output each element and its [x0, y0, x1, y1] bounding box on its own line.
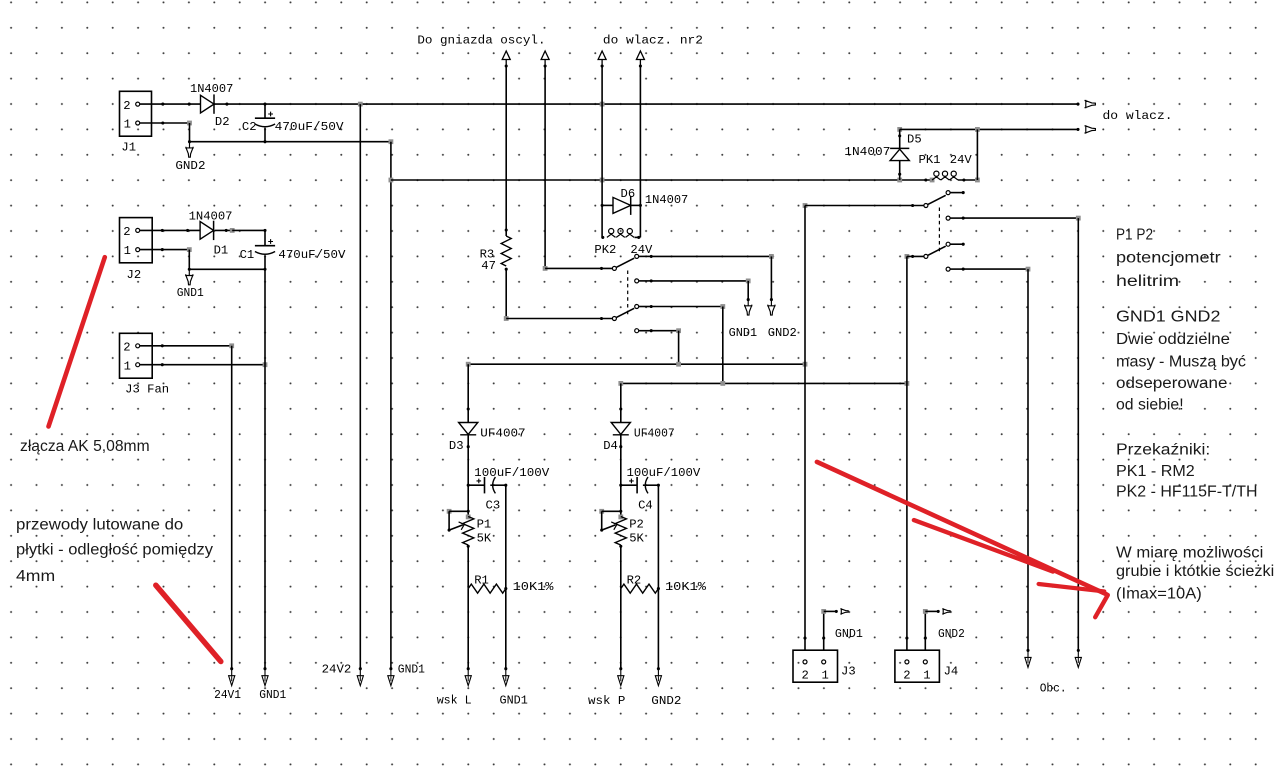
node v2 end: [543, 266, 548, 271]
arrow do wlacz lower: [1085, 126, 1096, 133]
PK2 sw1 common circle: [612, 266, 616, 270]
svg-text:D3: D3: [449, 439, 464, 453]
svg-text:R2: R2: [627, 574, 642, 588]
node PK1 coil left: [930, 178, 935, 183]
potentiometer P1: [463, 517, 474, 546]
svg-text:10K1%: 10K1%: [665, 580, 707, 594]
rail A arrow dot: [1076, 103, 1079, 106]
node P2 top: [618, 515, 623, 520]
arrow wsk P: [618, 669, 624, 686]
24V1 end dot: [230, 667, 233, 670]
GND2 wsk dot: [657, 667, 660, 670]
wire rail2 to arrow: [900, 128, 1079, 130]
svg-text:odseperowane: odseperowane: [1116, 375, 1227, 392]
red annotation line bottom-left: [156, 585, 221, 661]
svg-text:GND1: GND1: [177, 286, 204, 300]
wire Obc right vertical: [1077, 218, 1079, 650]
PK2 sw2 throw down circle: [635, 329, 639, 333]
PK1 sw2 throw down dot: [962, 268, 965, 271]
svg-text:2: 2: [123, 99, 130, 113]
wire Obc left vertical: [1027, 269, 1029, 650]
P2 wiper tee dot: [619, 510, 622, 513]
J4 GND2 stub dot: [937, 610, 940, 613]
svg-text:Obc.: Obc.: [1040, 681, 1067, 695]
wire D4 string top: [620, 383, 622, 422]
PK1 sw1 throw down stub: [950, 217, 964, 219]
PK1 sw2 throw up circle: [946, 242, 950, 246]
wire C1 bottom lead: [264, 255, 266, 269]
resistor R3: [501, 236, 511, 266]
PK1 sw2 common circle: [924, 254, 928, 258]
svg-text:do wlacz.: do wlacz.: [1103, 109, 1173, 123]
J3 pin1 dot: [822, 637, 825, 640]
svg-text:24V2: 24V2: [322, 663, 352, 677]
wire sw2 throw down right: [652, 330, 678, 332]
PK1 sw2 throw up dot: [962, 243, 965, 246]
wire GND2 wsk vertical: [657, 485, 659, 669]
junction C3 left: [467, 484, 470, 487]
svg-text:W miarę możliwości: W miarę możliwości: [1116, 545, 1263, 562]
P1 wiper arrowhead: [459, 522, 465, 530]
arrow to oscilloscope 2: [541, 51, 549, 66]
svg-text:1N4007: 1N4007: [645, 193, 688, 207]
P1 wiper tee dot: [467, 510, 470, 513]
junction C2 bottom: [263, 140, 266, 143]
svg-text:C4: C4: [638, 498, 653, 512]
svg-text:GND2: GND2: [768, 326, 797, 340]
node R3 corner: [504, 316, 509, 321]
diode D4: [611, 423, 630, 435]
node P1 wiper corner: [447, 509, 452, 514]
wire J2 pin1 down: [188, 250, 190, 270]
junction D1 cathode: [225, 229, 228, 232]
PK1 sw1 throw down dot: [962, 217, 965, 220]
svg-text:1: 1: [822, 669, 829, 683]
wire J1 pin1 down to GND2 rail: [189, 123, 191, 142]
wire P2 wiper left: [601, 511, 603, 530]
svg-text:1N4007: 1N4007: [189, 210, 233, 224]
node GND2 mid corner: [769, 254, 774, 259]
ground GND2 mid symbol: [768, 300, 775, 316]
PK1 sw1 throw up circle: [946, 191, 950, 195]
svg-text:2: 2: [903, 669, 910, 683]
svg-text:J1: J1: [121, 140, 136, 154]
arrow2 dot: [544, 64, 547, 67]
node GND1 mid corner: [746, 279, 751, 284]
J1 pin1 dot: [161, 121, 164, 124]
connector J2 box: [120, 218, 153, 263]
capacitor C2: [255, 117, 275, 119]
red arrowhead tail: [1095, 595, 1108, 617]
wire GND1 mid vertical: [747, 281, 749, 300]
svg-text:J3 Fan: J3 Fan: [125, 382, 169, 396]
junction C4 left: [619, 484, 622, 487]
wire PK1 coil feed vertical: [976, 129, 978, 180]
J4 pin2 circle: [905, 660, 909, 664]
node rail C left corner: [466, 362, 471, 367]
J3 pin1 circle: [822, 660, 826, 664]
wire C2 bottom lead: [264, 128, 266, 142]
wire PK2 coil right: [635, 236, 641, 238]
svg-text:C1: C1: [240, 248, 255, 262]
wire R3 down: [505, 269, 507, 318]
wsk L dot: [467, 667, 470, 670]
svg-text:GND1: GND1: [729, 326, 758, 340]
R2 right dot: [657, 587, 660, 590]
node rail A to PK2 feed: [600, 102, 605, 107]
svg-text:potencjometr: potencjometr: [1116, 250, 1221, 267]
PK2 sw1 throw up dot: [650, 255, 653, 258]
diode D2: [201, 95, 215, 113]
wire C1 top lead: [264, 230, 266, 245]
wire P1 to R1: [467, 545, 469, 589]
svg-text:24V: 24V: [950, 153, 973, 167]
PK1 sw1 throw down circle: [946, 216, 950, 220]
arrow GND2 wsk: [655, 669, 661, 686]
PK2 sw1 throw down circle: [635, 279, 639, 283]
arrow 24V2: [357, 669, 363, 686]
svg-text:D2: D2: [215, 115, 230, 129]
junction GND2 symbol: [188, 140, 191, 143]
wire sw1 down to Obc right: [964, 217, 1078, 219]
wire sw2 throw up right: [652, 306, 723, 308]
capacitor C1: [255, 245, 275, 247]
diode D6: [613, 197, 631, 213]
J2 pin2 dot b: [186, 229, 189, 232]
svg-text:D4: D4: [603, 439, 618, 453]
svg-text:PK2: PK2: [594, 243, 616, 257]
node D1 cathode wire end: [230, 228, 235, 233]
wire D5 bottom lead: [899, 161, 901, 180]
red annotation line J2: [49, 257, 105, 426]
PK1 sw2 common pin dot: [911, 255, 914, 258]
P2 wiper arrowhead: [611, 522, 617, 530]
svg-text:47: 47: [481, 259, 496, 273]
capacitor C3: [484, 477, 486, 493]
wire sw2 down vertical: [678, 331, 680, 365]
diode D1: [200, 222, 214, 240]
svg-text:GND1 GND2: GND1 GND2: [1116, 309, 1220, 326]
connector J4 box: [895, 650, 940, 682]
red arrow main stroke: [817, 462, 1107, 594]
GND2 mid dot: [770, 298, 773, 301]
svg-text:5K: 5K: [477, 532, 492, 546]
node rail B tee: [389, 178, 394, 183]
wire GND1 wsk vertical: [505, 485, 507, 669]
arrow do wlacz upper: [1085, 101, 1096, 108]
J3 GND1 stub dot: [835, 610, 838, 613]
D6 cathode dot: [639, 204, 642, 207]
J4 pin1 circle: [923, 660, 927, 664]
svg-text:GND1: GND1: [398, 663, 425, 677]
J2 pin2 dot a: [161, 229, 164, 232]
svg-text:GND1: GND1: [835, 627, 863, 641]
J4 pin1 dot: [924, 637, 927, 640]
D3 cathode dot: [467, 445, 470, 448]
svg-text:PK2 - HF115F-T/TH: PK2 - HF115F-T/TH: [1116, 483, 1258, 500]
svg-text:GND1: GND1: [500, 694, 528, 708]
arrow wsk L: [465, 669, 471, 686]
wire J3 pin2 vertical: [804, 206, 806, 651]
svg-text:2: 2: [123, 225, 130, 239]
wire J2 pin1: [140, 249, 189, 251]
PK2 sw2 common pin dot: [600, 317, 603, 320]
PK1 sw1 armature: [928, 195, 946, 204]
PK1 sw1 throw up stub: [950, 192, 964, 194]
svg-text:GND2: GND2: [938, 627, 965, 641]
arrow do wlacz nr2 b: [636, 51, 644, 66]
node rail C junction: [676, 362, 681, 367]
wire J4 pin2 vertical: [906, 256, 908, 650]
capacitor C4: [636, 477, 638, 493]
svg-text:2: 2: [123, 341, 130, 355]
J2 pin 1 circle: [136, 248, 140, 252]
PK1 sw1 throw up dot: [962, 191, 965, 194]
J3Fan pin 1 circle: [136, 363, 140, 367]
J2 pin 2 circle: [136, 228, 140, 232]
wire C4 right lead: [643, 484, 659, 486]
wire sw2 down to Obc left: [964, 268, 1028, 270]
PK1 sw1 common pin dot: [911, 204, 914, 207]
node sw2 down corner: [676, 328, 681, 333]
GND1 left end dot: [263, 667, 266, 670]
svg-text:5K: 5K: [629, 532, 644, 546]
wire J3 GND1 stub: [824, 610, 837, 612]
svg-text:4mm: 4mm: [16, 568, 55, 585]
wire C2 top lead: [264, 104, 266, 118]
D4 anode dot: [619, 407, 622, 410]
R3 bottom dot: [505, 268, 508, 271]
wire C4 left lead: [621, 484, 637, 486]
wire GND2 rail: [190, 141, 391, 143]
J4 pin2 dot: [905, 637, 908, 640]
ground GND1 symbol J2: [186, 269, 193, 285]
J3Fan pin 2 circle: [136, 344, 140, 348]
PK1 sw2 throw down circle: [946, 267, 950, 271]
ground GND1 mid symbol: [745, 300, 752, 316]
svg-text:10K1%: 10K1%: [513, 580, 555, 594]
GND1 wsk dot: [504, 667, 507, 670]
coil return end dot: [389, 667, 392, 670]
PK2 sw2 throw down stub: [639, 330, 652, 332]
node Obc left corner: [1026, 267, 1031, 272]
svg-text:przewody lutowane do: przewody lutowane do: [16, 517, 183, 534]
wire v2: [544, 66, 546, 268]
wire D4 to C4: [620, 435, 622, 516]
D4 cathode dot: [619, 445, 622, 448]
R3 top dot: [505, 228, 508, 231]
svg-text:1N4007: 1N4007: [190, 82, 233, 96]
wire wsk P vertical: [620, 589, 622, 669]
PK2 gang dashed link: [627, 271, 629, 317]
svg-text:P1: P1: [477, 518, 492, 532]
node J3Fan pin2 corner: [229, 343, 234, 348]
svg-text:PK1: PK1: [919, 153, 941, 167]
svg-text:D1: D1: [214, 244, 229, 258]
svg-text:płytki - odległość pomiędzy: płytki - odległość pomiędzy: [16, 542, 213, 559]
svg-text:1N4007: 1N4007: [844, 145, 890, 159]
svg-text:UF4007: UF4007: [480, 427, 525, 441]
node rail B at D5: [897, 178, 902, 183]
PK1 sw2 throw down stub: [950, 268, 964, 270]
J1 pin 2 circle: [136, 102, 140, 106]
node P2 wiper corner: [599, 509, 604, 514]
wire P2 wiper top: [602, 510, 621, 512]
wire P2 wiper diag: [602, 525, 616, 530]
wire PK1 sw2 common: [907, 255, 924, 257]
PK1 coil left dot: [924, 178, 927, 181]
arrow do wlacz nr2 a: [598, 51, 606, 66]
svg-text:100uF/100V: 100uF/100V: [474, 466, 550, 480]
wire v1 top: [505, 66, 507, 236]
wire throw up to GND2: [652, 255, 771, 257]
svg-text:P2: P2: [629, 518, 644, 532]
svg-text:1: 1: [923, 669, 930, 683]
wire P1 wiper diag: [449, 525, 463, 530]
wire wsk L vertical: [467, 589, 469, 669]
wire 24V1 vertical: [231, 346, 233, 669]
svg-text:C2: C2: [242, 120, 257, 134]
wire C3 left lead: [468, 484, 484, 486]
J3Fan pin1 dot: [161, 363, 164, 366]
arrow 24V1: [229, 669, 235, 686]
svg-text:D6: D6: [621, 187, 636, 201]
svg-text:100uF/100V: 100uF/100V: [627, 466, 701, 480]
wire D5 top lead: [899, 129, 901, 148]
node rail A to 24V2 drop: [358, 102, 363, 107]
PK2 sw1 throw up stub: [639, 255, 652, 257]
PK2 sw2 throw up dot: [650, 305, 653, 308]
wire D6 anode: [602, 204, 613, 206]
arrow GND1 wsk: [503, 669, 509, 686]
P1 wiper dot: [448, 529, 451, 532]
P2 wiper dot: [600, 529, 603, 532]
node J1 pin1 corner: [187, 121, 192, 126]
wire D1 to C1: [232, 229, 265, 231]
svg-text:wsk L: wsk L: [437, 694, 472, 708]
junction rail A at C2: [263, 103, 266, 106]
node J4 GND2 stub corner: [923, 609, 928, 614]
wire D3 to C3: [467, 435, 469, 516]
GND1 mid dot: [747, 298, 750, 301]
D3 anode dot: [467, 407, 470, 410]
D5 cathode dot: [898, 134, 901, 137]
PK2 sw1 armature: [616, 258, 634, 267]
svg-text:24V: 24V: [630, 243, 653, 257]
arrow1 dot: [505, 64, 508, 67]
P2 bottom dot: [619, 545, 622, 548]
wire J1 pin1: [140, 122, 190, 124]
node rail C right tee: [803, 362, 808, 367]
svg-text:helitrim: helitrim: [1116, 273, 1179, 290]
rail2 arrow dot: [1076, 128, 1079, 131]
arrow3 dot: [601, 64, 604, 67]
node rail D right tee: [905, 381, 910, 386]
junction D2 cathode: [225, 103, 228, 106]
node P1 top: [466, 515, 471, 520]
R1 right dot: [504, 587, 507, 590]
wire P2 to R2: [620, 545, 622, 589]
PK2 sw1 throw up circle: [635, 254, 639, 258]
junction C4 right: [657, 484, 660, 487]
arrow Obc left: [1025, 650, 1031, 667]
wire J3 pin1 vertical: [823, 611, 825, 650]
wire R3 to PK2 sw2 common: [506, 318, 612, 320]
node J3Fan pin1 tee: [263, 362, 268, 367]
svg-text:470uF/50V: 470uF/50V: [278, 248, 346, 262]
svg-text:wsk P: wsk P: [588, 694, 625, 708]
wire PK1 sw1 common: [805, 205, 924, 207]
wire GND1 rail J2: [189, 268, 265, 270]
wire GND2 mid vertical: [770, 256, 772, 299]
wire rail A 24V top: [214, 103, 1079, 105]
Obc right dot: [1077, 649, 1080, 652]
wire GND1 vertical left: [264, 269, 266, 668]
node PK1 sw1 common corner: [803, 203, 808, 208]
wire rail D: [621, 382, 907, 384]
node D5 top corner: [897, 127, 902, 132]
arrow Obc right: [1075, 650, 1081, 667]
diode D5: [890, 147, 909, 149]
wsk P dot: [619, 667, 622, 670]
PK2 sw2 armature: [616, 308, 634, 317]
svg-text:GND2: GND2: [651, 694, 681, 708]
PK2 sw1 throw down dot: [650, 279, 653, 282]
arrow to oscilloscope 1: [502, 51, 510, 66]
PK1 gang dashed link: [938, 208, 940, 254]
node PK1 coil corner: [975, 178, 980, 183]
J2 pin1 dot: [161, 248, 164, 251]
PK2 sw1 throw down stub: [639, 280, 652, 282]
P1 bottom dot: [467, 545, 470, 548]
wire P1 wiper top: [449, 510, 468, 512]
PK2 sw2 throw up stub: [639, 306, 652, 308]
PK2 coil left dot: [601, 236, 604, 239]
J3Fan pin2 dot: [161, 344, 164, 347]
node rail D left corner: [618, 381, 623, 386]
svg-text:D5: D5: [907, 132, 922, 146]
svg-text:Dwie oddzielne: Dwie oddzielne: [1116, 331, 1230, 348]
node rail D junction: [720, 381, 725, 386]
svg-text:470uF/50V: 470uF/50V: [275, 120, 345, 134]
arrow J4 GND2 stub: [942, 609, 950, 614]
wire C3 right lead: [490, 484, 506, 486]
PK2 sw2 common circle: [612, 317, 616, 321]
junction C1 top: [263, 229, 266, 232]
resistor R2: [621, 584, 659, 593]
wire throw down to GND1: [652, 280, 748, 282]
Obc left dot: [1026, 649, 1029, 652]
arrow J3 GND1 stub: [840, 609, 848, 614]
J1 pin 1 circle: [136, 121, 140, 125]
junction GND1 symbol: [188, 268, 191, 271]
node rail2 corner: [975, 127, 980, 132]
node Obc right corner: [1076, 216, 1081, 221]
wire v4: [639, 66, 641, 237]
relay PK1 coil: [932, 171, 958, 180]
node GND2 rail corner: [389, 139, 394, 144]
wire PK1 coil right: [958, 179, 977, 181]
wire D3 string top: [467, 364, 469, 422]
potentiometer P2: [615, 517, 626, 546]
svg-text:do wlacz. nr2: do wlacz. nr2: [603, 34, 703, 48]
svg-text:masy - Muszą być: masy - Muszą być: [1116, 353, 1246, 370]
wire rail C: [468, 363, 805, 365]
wire coil return vertical: [390, 142, 392, 669]
svg-text:GND1: GND1: [259, 688, 286, 702]
wire v3: [601, 66, 603, 237]
svg-text:1: 1: [124, 118, 131, 132]
